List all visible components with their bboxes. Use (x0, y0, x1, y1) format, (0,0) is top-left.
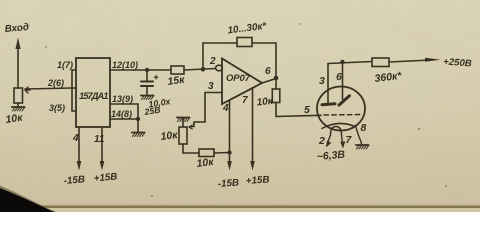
resistor 10...30к (feedback) (237, 38, 252, 47)
svg-text:10к: 10к (256, 96, 274, 109)
svg-text:1(7): 1(7) (57, 60, 73, 70)
wire: heater pin 7 arrow (340, 135, 345, 149)
wire: heater pin 2 arrow (326, 135, 332, 148)
resistor 10к (to grid) (272, 89, 280, 117)
svg-text:+15В: +15В (245, 174, 269, 187)
wire: feedback loop upper (203, 43, 276, 77)
potentiometer 10к (offset null) (179, 127, 187, 144)
tube cathode dome (322, 123, 355, 128)
wire: pin 4 of op-amp to -15В (227, 101, 232, 171)
wire: left pin rail of 157ДА1 (72, 70, 76, 111)
svg-text:3: 3 (208, 81, 214, 92)
svg-text:3(5): 3(5) (49, 103, 65, 113)
svg-text:7: 7 (242, 95, 248, 106)
svg-text:2: 2 (318, 135, 325, 147)
svg-text:10к: 10к (160, 129, 179, 143)
IC U1 157ДА1 body (76, 58, 110, 127)
svg-text:-15В: -15В (217, 178, 239, 190)
wire: pin 3 of op-amp to offset pot wiper (189, 93, 222, 130)
wire: anode leads pins 3,6 to supply rail (328, 60, 372, 104)
svg-text:10к: 10к (5, 112, 24, 126)
ground (below capacitor) (141, 96, 154, 100)
svg-text:15к: 15к (167, 74, 186, 88)
ground (tube cathode pin 8) (356, 145, 369, 149)
svg-text:6: 6 (265, 66, 271, 77)
svg-text:10к: 10к (196, 156, 215, 170)
svg-text:4: 4 (222, 103, 229, 114)
svg-text:14(8): 14(8) (111, 109, 132, 119)
node: feedback tap at op-amp pin 2 (201, 67, 206, 72)
wire: pin 7 of op-amp to +15В (250, 88, 255, 171)
wire: pin 5 to tube grid (276, 115, 321, 116)
wire: offset pot bottom to series resistor (183, 144, 199, 153)
svg-text:157ДА1: 157ДА1 (79, 91, 109, 102)
wire: pin 12(10) output to cap node (110, 69, 171, 71)
ground (below pins 13/14 rail) (132, 133, 145, 137)
svg-text:13(9): 13(9) (112, 94, 133, 104)
paper specks (45, 23, 447, 197)
svg-text:6: 6 (336, 71, 342, 83)
tube V1 (envelope) (317, 87, 365, 131)
wire: pot wiper to chip input rail (25, 88, 72, 89)
op-amp U2 ОР07 (216, 59, 262, 105)
svg-text:5: 5 (304, 104, 310, 116)
bottom crease line (0, 205, 480, 206)
svg-text:2(6): 2(6) (47, 78, 64, 88)
ground (below input pot) (12, 103, 25, 111)
tube heater loop (331, 127, 342, 136)
svg-text:-15В: -15В (63, 174, 85, 187)
node: op-amp output pin 6 (262, 76, 278, 89)
potentiometer 10к (input divider) (14, 87, 30, 103)
wire: pins 13(9),14(8) to ground rail (110, 104, 140, 132)
svg-text:4: 4 (72, 133, 79, 144)
ground (above offset pot) (177, 118, 190, 128)
svg-text:+250В: +250В (443, 57, 472, 70)
tube anode plates (322, 96, 350, 105)
svg-text:3: 3 (319, 75, 325, 87)
svg-text:8: 8 (361, 122, 367, 134)
resistor 360к (anode load) (372, 58, 431, 67)
svg-text:Вход: Вход (4, 22, 29, 35)
resistor 15к (171, 66, 215, 74)
resistor 10к (offset series) (199, 149, 232, 157)
node: +250В terminal arrow (425, 58, 441, 62)
node: input terminal arrow (Вход) (15, 38, 20, 89)
dark photo corner bottom-left (0, 186, 56, 213)
tube grid (dashed) (324, 114, 362, 117)
svg-text:12(10): 12(10) (112, 60, 138, 70)
svg-text:2: 2 (209, 56, 216, 67)
svg-text:~6,3В: ~6,3В (316, 149, 346, 163)
svg-text:ОР07: ОР07 (226, 73, 251, 84)
wire: cathode pin 8 to ground (356, 126, 362, 145)
wire: pin 4 of 157ДА1 to -15В (77, 127, 82, 171)
svg-text:11: 11 (94, 134, 105, 145)
wire: pin 11 of 157ДА1 to +15В (100, 127, 105, 171)
capacitor 10,0x25В (141, 68, 158, 95)
svg-text:+15В: +15В (93, 171, 118, 184)
